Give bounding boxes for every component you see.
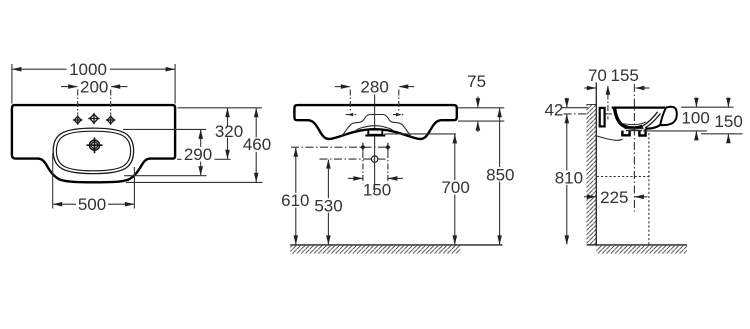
dimension 850 <box>499 108 501 244</box>
basin center axis dash-dot <box>633 84 635 212</box>
fixing hole axis right <box>387 152 389 184</box>
fixing holes dash-dot line <box>291 146 389 148</box>
centerline vertical <box>374 95 376 193</box>
basin bowl inner wall and bottom <box>615 108 643 128</box>
reference line bulge bottom extension <box>126 181 263 183</box>
reference line top edge extension <box>178 107 263 109</box>
svg-text:290: 290 <box>184 145 212 164</box>
dimension 100 <box>695 98 697 140</box>
siphon circle <box>371 156 377 162</box>
svg-text:200: 200 <box>80 77 108 96</box>
drain fitting rectangle <box>368 130 382 135</box>
svg-text:850: 850 <box>486 165 514 184</box>
reference line drain bottom <box>385 133 457 135</box>
dimension 700 <box>454 134 456 244</box>
basin underside curve <box>596 136 622 141</box>
wall face line <box>595 83 597 245</box>
wall top edge <box>587 104 597 106</box>
dimension 460 <box>255 108 257 182</box>
bowl interior line <box>618 122 646 125</box>
fixing hole cross left <box>360 143 365 152</box>
bowl outer rim oval <box>53 128 133 174</box>
dimension 280 <box>335 87 415 113</box>
drain flange lines <box>625 128 644 130</box>
fixing hole axis left <box>362 152 364 184</box>
dimension 75 <box>477 97 479 133</box>
siphon dash-dot line <box>320 158 388 160</box>
pedestal dashed vertical <box>648 133 650 245</box>
svg-text:280: 280 <box>360 77 388 96</box>
basin front rim hook <box>660 107 677 125</box>
dimension 225 <box>584 196 596 198</box>
faucet hole left <box>73 115 83 125</box>
fixing hole cross right <box>385 143 390 152</box>
ground line center <box>290 244 502 246</box>
faucet hole marker left <box>346 114 356 116</box>
dimension 70 arrow <box>584 87 596 89</box>
drain symbol <box>87 137 103 153</box>
svg-text:500: 500 <box>78 195 106 214</box>
svg-text:225: 225 <box>600 188 628 207</box>
drain trap left bracket <box>622 131 629 136</box>
svg-text:150: 150 <box>714 112 742 131</box>
basin rim top edge <box>612 106 665 108</box>
reference line bottom flat right <box>458 120 504 122</box>
bowl inner oval <box>56 131 130 171</box>
bowl outer front face <box>646 125 661 129</box>
fixing hole marker dash <box>604 113 612 115</box>
faucet hole marker right <box>393 114 403 116</box>
svg-text:150: 150 <box>363 180 391 199</box>
dimension 320 <box>227 108 229 159</box>
svg-text:700: 700 <box>441 178 469 197</box>
pedestal inner contour <box>341 115 411 137</box>
pedestal dashed horizontal <box>597 176 649 178</box>
dimension 810 <box>566 114 568 244</box>
faucet hole right <box>106 115 116 125</box>
svg-text:320: 320 <box>215 122 243 141</box>
svg-text:155: 155 <box>611 66 639 85</box>
basin back upstand <box>600 108 605 127</box>
reference segments body bottom extension <box>177 158 182 160</box>
dimension 1000 <box>12 64 175 104</box>
dimension 150 <box>348 177 403 179</box>
dimension 500 <box>53 153 135 209</box>
svg-text:70: 70 <box>588 66 607 85</box>
svg-text:810: 810 <box>555 168 583 187</box>
svg-text:75: 75 <box>467 72 486 91</box>
svg-text:530: 530 <box>314 196 342 215</box>
drain fitting base <box>365 135 385 137</box>
ground hatch right <box>596 246 687 254</box>
bowl front inner rise lines <box>642 112 657 126</box>
reference line top right <box>458 107 504 109</box>
svg-text:610: 610 <box>281 191 309 210</box>
wall hatch band <box>587 105 597 245</box>
svg-text:42: 42 <box>544 100 563 119</box>
drain trap right bracket <box>639 129 645 136</box>
reference line rim top right <box>681 106 733 108</box>
svg-text:1000: 1000 <box>69 60 107 79</box>
basin front-view body outline <box>294 105 456 139</box>
dimension 200 <box>61 87 127 115</box>
faucet hole center <box>88 113 99 124</box>
svg-text:460: 460 <box>243 135 271 154</box>
bowl front rim arc <box>357 126 393 130</box>
dimension 530 <box>327 160 329 245</box>
basin top-view body outline <box>12 105 175 182</box>
svg-text:100: 100 <box>681 108 709 127</box>
ground line right <box>587 244 687 246</box>
reference line bowl bottom extension <box>124 175 207 177</box>
reference line 100 bottom <box>643 130 707 132</box>
ground hatch center <box>290 246 460 254</box>
reference line 150 bottom <box>701 133 742 135</box>
fixing hole axis vertical <box>607 86 609 120</box>
dimension 610 <box>295 148 297 245</box>
dimension 155 arrow <box>636 87 650 89</box>
reference line bowl top extension <box>123 128 206 130</box>
dimension 290 <box>200 130 202 175</box>
dimension 150 side <box>727 98 729 143</box>
